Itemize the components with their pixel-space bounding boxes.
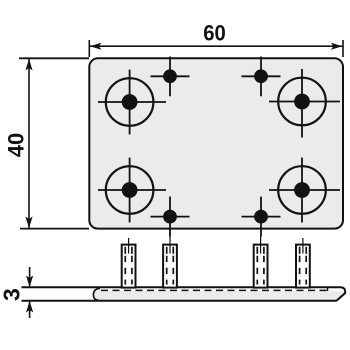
arrow bottom of dim 40 bbox=[25, 217, 32, 229]
side view plate bottom edge bbox=[22, 300, 337, 302]
hole circle top-right bbox=[278, 78, 326, 126]
crosshair pin bottom-right bbox=[242, 197, 281, 237]
side pin 3 bbox=[254, 237, 268, 288]
crosshair pin top-left bbox=[151, 57, 190, 97]
hole center dot top-left bbox=[122, 94, 138, 110]
side pin 1 bbox=[122, 238, 136, 288]
extension line left for dim 60 bbox=[88, 40, 90, 57]
pin dot bottom-right bbox=[254, 210, 268, 224]
dim 3 bottom arrow bbox=[29, 301, 31, 318]
pin dot bottom-left bbox=[163, 210, 177, 224]
side view inner left rounded cap bbox=[93, 288, 100, 300]
svg-text:3: 3 bbox=[0, 288, 25, 301]
hole circle bottom-left bbox=[106, 166, 154, 214]
side view inner gray body bbox=[93, 291, 344, 302]
crosshair pin top-right bbox=[242, 57, 281, 97]
arrow top of dim 40 bbox=[25, 59, 32, 71]
side pin 4 bbox=[296, 238, 310, 288]
hole center dot top-right bbox=[294, 94, 310, 110]
svg-text:40: 40 bbox=[4, 133, 29, 157]
hole circle top-left bbox=[106, 78, 154, 126]
arrow right of dim 60 bbox=[331, 43, 343, 50]
crosshair bottom-right hole bbox=[269, 158, 340, 223]
dimension line 40 bbox=[28, 59, 30, 228]
svg-text:60: 60 bbox=[203, 22, 226, 46]
arrow left of dim 60 bbox=[90, 43, 102, 50]
hole center dot bottom-right bbox=[294, 182, 310, 198]
extension line top for dim 40 bbox=[19, 57, 89, 59]
hole circle bottom-right bbox=[278, 166, 326, 214]
crosshair top-left hole bbox=[98, 70, 166, 135]
dimension line 60 bbox=[90, 45, 343, 47]
side view plate top edge bbox=[22, 287, 346, 300]
extension line bottom for dim 40 bbox=[20, 228, 89, 230]
dim 3 top arrow bbox=[29, 267, 31, 286]
pin dot top-right bbox=[254, 69, 268, 83]
hole center dot bottom-left bbox=[122, 182, 138, 198]
crosshair pin bottom-left bbox=[151, 197, 190, 237]
extension line right for dim 60 bbox=[342, 40, 344, 57]
crosshair top-right hole bbox=[269, 69, 340, 138]
side view step bbox=[327, 288, 329, 291]
side view hidden edge dashed bbox=[101, 289, 328, 291]
pin dot top-left bbox=[163, 69, 177, 83]
side pin 2 bbox=[163, 237, 177, 288]
plate top view body bbox=[89, 58, 343, 228]
crosshair bottom-left hole bbox=[98, 158, 166, 223]
